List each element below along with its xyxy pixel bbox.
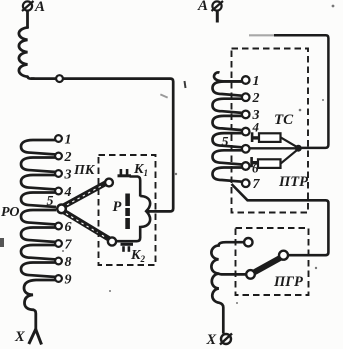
contact K1 moving circle — [105, 179, 113, 187]
svg-text:А: А — [197, 0, 208, 14]
svg-text:ТС: ТС — [274, 112, 294, 128]
right winding lower end diagonal lead to PGR — [232, 184, 329, 255]
wire K1 fixed contact to reactor top — [130, 177, 141, 197]
svg-text:Х: Х — [206, 332, 217, 348]
winding PO tap numbers — [64, 132, 73, 287]
winding PO lower end turns and lead down to X — [24, 280, 56, 330]
right tapped winding (loops) — [213, 82, 243, 182]
terminal X (left) fork symbol — [29, 329, 42, 345]
svg-text:1: 1 — [253, 74, 260, 89]
PGR upper-left contact circle — [244, 238, 252, 246]
terminal X (right) bushing symbol — [220, 334, 232, 345]
winding PO tap circles 1-4,6-9 — [55, 135, 62, 282]
contact K2 moving circle — [108, 237, 116, 245]
svg-text:A: A — [34, 0, 45, 15]
svg-text:7: 7 — [253, 177, 261, 192]
resistor (upper) of TC with leads — [251, 132, 298, 147]
svg-text:6: 6 — [65, 220, 72, 235]
resistor (lower) of PTR with leads — [250, 150, 297, 168]
junction circle at PO tap 5 (blade pivot) — [57, 205, 66, 214]
reactor mid-tap output wire — [146, 210, 150, 213]
contact K1 fixed contact (bar with prongs) — [118, 169, 132, 177]
junction circle on main wire — [56, 75, 63, 82]
svg-text:7: 7 — [65, 237, 73, 252]
svg-text:9: 9 — [65, 272, 72, 287]
terminal A (left) bushing symbol — [22, 1, 34, 11]
svg-text:X: X — [14, 329, 25, 345]
selector blade to K2 (thick, hatched) — [63, 211, 110, 240]
svg-text:Р: Р — [113, 199, 122, 215]
svg-text:5: 5 — [47, 194, 54, 209]
reactor P winding (two bumps, mid tap to output) — [117, 196, 151, 241]
svg-text:3: 3 — [64, 167, 72, 182]
svg-text:1: 1 — [65, 132, 72, 147]
right winding tap numbers — [252, 74, 261, 192]
small tick mark on main wire — [185, 81, 186, 88]
terminal A (right) bushing symbol — [212, 1, 224, 11]
svg-text:8: 8 — [65, 255, 72, 270]
right winding tap circles 1-7 — [242, 76, 250, 187]
top-right wire to right edge and down to TC output junction — [274, 35, 328, 148]
dashed enclosure TC / PTR — [232, 49, 309, 213]
inductor coil in phase A lead (4 turns) — [19, 28, 34, 79]
svg-text:4: 4 — [64, 185, 72, 200]
PGR switch blade (thick) — [253, 258, 281, 274]
svg-text:РО: РО — [1, 205, 19, 220]
dashed enclosure PGR — [236, 228, 309, 295]
PGR right contact circle — [279, 251, 288, 260]
svg-text:ПТР: ПТР — [278, 174, 308, 190]
wire from terminal A down to series coil — [26, 11, 29, 29]
contact K2 fixed contact (bar with prongs) — [121, 243, 134, 252]
svg-text:5: 5 — [222, 135, 229, 150]
right winding top hook — [214, 72, 242, 81]
main wire from coil to right, corner down at x=173 to reactor mid-tap — [31, 79, 173, 212]
PGR coil (small winding with two taps) and lead to X — [211, 242, 246, 333]
svg-text:ПГР: ПГР — [273, 274, 303, 290]
PGR lower-left contact circle — [246, 270, 255, 279]
reactor P core bar — [125, 194, 130, 230]
svg-text:2: 2 — [252, 91, 260, 106]
selector blade to K1 (thick, hatched) — [63, 183, 106, 207]
svg-text:2: 2 — [64, 150, 72, 165]
winding PO (tapped autotransformer winding, loops) — [21, 140, 56, 277]
junction dot (TC output) — [295, 145, 302, 152]
wire tap5 to junction — [250, 147, 296, 149]
dashed enclosure of contactor P with K1 K2 — [99, 155, 156, 265]
stub wire below right terminal A — [216, 11, 219, 23]
faint start of top-right wire — [249, 34, 276, 36]
svg-text:ПК: ПК — [73, 163, 96, 178]
